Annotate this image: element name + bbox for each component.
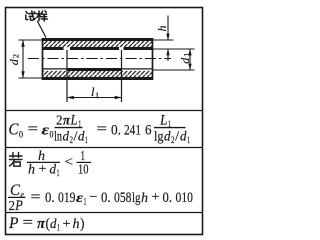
svg-text:π: π bbox=[63, 114, 70, 129]
outer border frame bbox=[6, 8, 203, 235]
svg-text:=: = bbox=[28, 122, 39, 138]
outer electrode bottom (thick outer surface line) bbox=[42, 77, 153, 80]
divider line 3 bbox=[5, 212, 203, 214]
svg-text:<: < bbox=[65, 155, 74, 170]
svg-text:ε: ε bbox=[76, 190, 84, 205]
svg-text:0.: 0. bbox=[111, 123, 121, 139]
svg-text:0: 0 bbox=[19, 131, 23, 141]
inner electrode bottom thick segment bbox=[67, 68, 122, 71]
svg-text:058: 058 bbox=[114, 190, 132, 206]
bottom wall hatch bbox=[43, 71, 153, 77]
svg-text:ε: ε bbox=[42, 123, 50, 139]
svg-text:h: h bbox=[73, 217, 80, 232]
d1 dimension line with arrows bbox=[189, 49, 191, 70]
svg-text:h: h bbox=[141, 191, 148, 206]
svg-text:=: = bbox=[31, 190, 41, 206]
svg-text:lg: lg bbox=[154, 129, 164, 144]
svg-text:1: 1 bbox=[187, 135, 190, 145]
svg-text:0.: 0. bbox=[163, 190, 173, 206]
label d1 (rotated) bbox=[178, 53, 192, 64]
svg-text:2: 2 bbox=[70, 135, 74, 145]
svg-text:ln: ln bbox=[54, 129, 62, 144]
svg-text:1: 1 bbox=[182, 53, 192, 57]
svg-text:2: 2 bbox=[11, 54, 21, 58]
formula row 2 line A: ruo h/(h+d1) < 1/10 bbox=[10, 148, 92, 178]
h dimension arrows (outside, small gap) bbox=[167, 16, 169, 41]
outer electrode top (thick outer surface line) bbox=[42, 38, 153, 41]
svg-text:1: 1 bbox=[95, 90, 99, 100]
svg-text:2: 2 bbox=[171, 135, 175, 145]
svg-text:/: / bbox=[175, 129, 179, 144]
svg-text:10: 10 bbox=[78, 162, 89, 177]
svg-text:019: 019 bbox=[58, 190, 76, 206]
label 试样 (specimen), hand-drawn CJK bbox=[26, 11, 48, 21]
d2 dimension line with arrows bbox=[22, 40, 24, 78]
h dimension extension line bbox=[153, 39, 174, 41]
svg-text:1: 1 bbox=[85, 135, 88, 145]
svg-text:=: = bbox=[23, 215, 34, 231]
svg-text:P: P bbox=[8, 215, 19, 232]
inner surface bottom thin line bbox=[42, 68, 153, 70]
svg-text:d: d bbox=[164, 129, 171, 144]
svg-text:010: 010 bbox=[176, 190, 194, 206]
svg-text:2: 2 bbox=[56, 114, 63, 129]
svg-text:C: C bbox=[10, 182, 21, 199]
svg-text:h: h bbox=[28, 162, 35, 177]
svg-text:1: 1 bbox=[57, 168, 60, 178]
svg-text:+: + bbox=[39, 161, 47, 176]
tube left end face bbox=[42, 38, 44, 80]
svg-text:lg: lg bbox=[132, 191, 141, 206]
formula row 1: C0 = e0 2piL1/ln d2/d1 = 0.2416 L1/lg d2/d1 bbox=[9, 113, 191, 146]
svg-text:L: L bbox=[159, 113, 167, 129]
divider line 1 bbox=[5, 110, 203, 112]
svg-text:−: − bbox=[90, 190, 98, 205]
svg-text:0.: 0. bbox=[101, 190, 111, 206]
formula row 3: P = pi(d1 + h) bbox=[8, 215, 85, 233]
svg-text:d: d bbox=[178, 57, 192, 64]
formula row 2 line B: Ce/2P = 0.019e1 - 0.058lgh + 0.010 bbox=[8, 182, 193, 214]
svg-text:P: P bbox=[14, 198, 22, 214]
divider line 2 bbox=[5, 147, 203, 149]
d2 dimension extension lines bbox=[19, 39, 43, 41]
svg-text:): ) bbox=[80, 216, 85, 232]
svg-text:d: d bbox=[180, 129, 187, 144]
fraction 1 bar bbox=[55, 127, 83, 129]
svg-text:241: 241 bbox=[124, 123, 141, 139]
leader line to specimen wall bbox=[37, 21, 46, 38]
label h (rotated) bbox=[155, 26, 169, 32]
tube right end face bbox=[152, 38, 154, 80]
svg-text:L: L bbox=[70, 113, 78, 129]
label d2 (rotated) bbox=[7, 54, 21, 65]
d1 dimension extension lines bbox=[153, 48, 195, 50]
svg-text:d: d bbox=[7, 58, 21, 65]
l1 extension lines through bore bbox=[66, 50, 68, 102]
CJK ruo (if), hand-drawn bbox=[10, 153, 23, 167]
svg-text:0.: 0. bbox=[45, 190, 55, 206]
svg-text:C: C bbox=[9, 120, 20, 139]
svg-text:1: 1 bbox=[57, 223, 60, 233]
fraction 2 bar bbox=[154, 127, 186, 129]
l1 dimension line with arrows bbox=[67, 97, 122, 99]
svg-text:d: d bbox=[50, 162, 57, 177]
svg-text:2: 2 bbox=[9, 199, 16, 214]
svg-text:=: = bbox=[97, 122, 108, 138]
svg-text:h: h bbox=[155, 26, 169, 32]
top wall hatch bbox=[43, 41, 153, 47]
svg-text:1: 1 bbox=[84, 197, 87, 207]
svg-text:6: 6 bbox=[145, 123, 152, 139]
svg-text:+: + bbox=[63, 216, 71, 231]
svg-text:d: d bbox=[78, 129, 85, 144]
svg-text:+: + bbox=[152, 190, 160, 205]
svg-text:d: d bbox=[63, 129, 70, 144]
inner electrode top segments with gaps bbox=[42, 47, 64, 50]
centerline (dash-dot axis) bbox=[28, 58, 171, 60]
